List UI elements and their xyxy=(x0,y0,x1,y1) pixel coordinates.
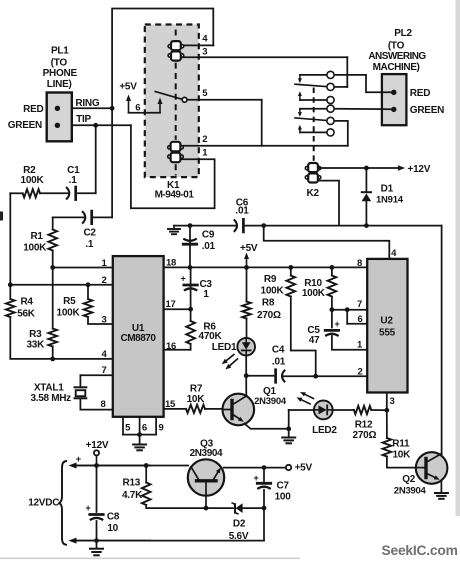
svg-text:+5V: +5V xyxy=(119,82,137,93)
svg-text:7: 7 xyxy=(101,365,106,376)
svg-text:PHONE: PHONE xyxy=(43,68,78,79)
svg-text:PL1: PL1 xyxy=(51,45,69,56)
svg-text:100K: 100K xyxy=(23,243,47,254)
svg-text:R9: R9 xyxy=(264,274,277,285)
svg-text:+12V: +12V xyxy=(408,164,431,175)
svg-text:3: 3 xyxy=(202,47,207,58)
svg-text:100K: 100K xyxy=(261,285,285,296)
svg-text:555: 555 xyxy=(379,328,396,339)
svg-text:(TO: (TO xyxy=(51,57,68,68)
svg-text:R7: R7 xyxy=(190,384,203,395)
svg-text:12VDC: 12VDC xyxy=(28,498,59,509)
svg-text:LED1: LED1 xyxy=(212,342,237,353)
svg-text:.01: .01 xyxy=(272,356,286,367)
svg-text:LINE): LINE) xyxy=(47,79,72,90)
svg-text:1: 1 xyxy=(203,289,209,300)
svg-text:+: + xyxy=(85,503,90,513)
svg-text:C2: C2 xyxy=(83,228,96,239)
svg-text:470K: 470K xyxy=(199,331,223,342)
svg-text:3: 3 xyxy=(101,315,106,326)
svg-text:15: 15 xyxy=(165,399,176,410)
svg-text:MACHINE): MACHINE) xyxy=(373,62,420,73)
svg-text:5.6V: 5.6V xyxy=(229,531,249,542)
svg-text:GREEN: GREEN xyxy=(410,105,444,116)
svg-text:9: 9 xyxy=(158,423,163,434)
svg-text:R1: R1 xyxy=(30,231,43,242)
svg-text:M-949-01: M-949-01 xyxy=(155,189,195,200)
svg-text:8: 8 xyxy=(100,399,105,410)
svg-text:.01: .01 xyxy=(235,206,249,217)
svg-text:8: 8 xyxy=(357,258,362,269)
svg-text:2: 2 xyxy=(101,275,106,286)
svg-text:+5V: +5V xyxy=(295,462,313,473)
svg-text:2N3904: 2N3904 xyxy=(394,486,427,497)
svg-text:RED: RED xyxy=(23,104,43,115)
svg-text:XTAL1: XTAL1 xyxy=(34,383,64,394)
svg-text:100: 100 xyxy=(275,492,292,503)
svg-text:10K: 10K xyxy=(187,394,206,405)
svg-text:6: 6 xyxy=(135,103,140,114)
svg-text:Q2: Q2 xyxy=(402,474,416,485)
svg-text:+12V: +12V xyxy=(86,440,109,451)
svg-text:10K: 10K xyxy=(392,449,411,460)
svg-text:R8: R8 xyxy=(262,298,275,309)
svg-text:R11: R11 xyxy=(392,439,410,450)
svg-text:270Ω: 270Ω xyxy=(353,430,377,441)
svg-text:PL2: PL2 xyxy=(394,28,412,39)
svg-text:4.7K: 4.7K xyxy=(122,490,143,501)
svg-text:10: 10 xyxy=(107,523,118,534)
svg-text:CM8870: CM8870 xyxy=(120,333,156,344)
svg-text:+5V: +5V xyxy=(240,243,258,254)
svg-text:.01: .01 xyxy=(202,241,216,252)
svg-text:R12: R12 xyxy=(355,420,373,431)
svg-text:33K: 33K xyxy=(26,340,45,351)
svg-text:+: + xyxy=(180,274,185,284)
svg-text:47: 47 xyxy=(309,335,320,346)
svg-text:D2: D2 xyxy=(233,519,246,530)
svg-text:100K: 100K xyxy=(302,288,326,299)
svg-text:+: + xyxy=(334,319,339,329)
svg-text:2: 2 xyxy=(202,134,207,145)
svg-text:100K: 100K xyxy=(57,307,81,318)
svg-text:C4: C4 xyxy=(272,345,285,356)
svg-text:.1: .1 xyxy=(85,239,94,250)
svg-text:ANSWERING: ANSWERING xyxy=(368,51,426,62)
svg-text:100K: 100K xyxy=(21,175,45,186)
svg-text:RING: RING xyxy=(75,98,99,109)
svg-text:TIP: TIP xyxy=(76,114,91,125)
svg-text:17: 17 xyxy=(165,299,175,310)
svg-text:18: 18 xyxy=(166,258,176,269)
svg-text:6: 6 xyxy=(357,314,362,325)
svg-text:2N3904: 2N3904 xyxy=(254,396,287,407)
svg-text:.1: .1 xyxy=(69,175,78,186)
svg-text:+: + xyxy=(253,473,258,483)
svg-text:6: 6 xyxy=(142,423,147,434)
svg-text:C9: C9 xyxy=(202,230,215,241)
svg-text:R13: R13 xyxy=(122,478,140,489)
svg-text:2: 2 xyxy=(357,366,362,377)
svg-text:+: + xyxy=(76,454,82,465)
svg-text:(TO: (TO xyxy=(388,40,405,51)
svg-text:R5: R5 xyxy=(63,296,76,307)
svg-text:16: 16 xyxy=(166,341,176,352)
svg-text:GREEN: GREEN xyxy=(8,120,42,131)
svg-text:C7: C7 xyxy=(276,481,289,492)
svg-text:SeekIC.com: SeekIC.com xyxy=(381,543,457,558)
svg-text:RED: RED xyxy=(410,88,430,99)
svg-text:C8: C8 xyxy=(107,512,120,523)
svg-text:R3: R3 xyxy=(29,329,42,340)
svg-text:56K: 56K xyxy=(17,309,36,320)
svg-text:U2: U2 xyxy=(380,315,393,326)
svg-text:1N914: 1N914 xyxy=(376,195,404,206)
svg-text:LED2: LED2 xyxy=(312,425,337,436)
svg-text:R4: R4 xyxy=(20,297,33,308)
svg-text:3: 3 xyxy=(389,396,394,407)
svg-text:270Ω: 270Ω xyxy=(257,310,281,321)
svg-text:2N3904: 2N3904 xyxy=(190,448,223,459)
svg-text:K2: K2 xyxy=(307,188,320,199)
svg-text:7: 7 xyxy=(357,299,362,310)
svg-text:3.58 MHz: 3.58 MHz xyxy=(30,393,71,404)
svg-text:D1: D1 xyxy=(381,184,394,195)
